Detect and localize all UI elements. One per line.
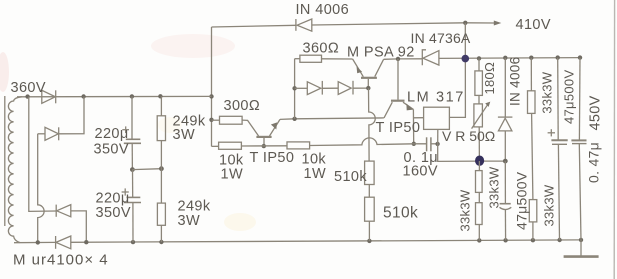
node rail end C6 junction <box>578 55 582 59</box>
wire LM317 input pin <box>413 117 423 119</box>
svg-text:IN 4736A: IN 4736A <box>411 30 471 46</box>
wire AC-top node down to D3 cathode <box>29 97 56 212</box>
transistor Q1 TIP50 <box>256 119 280 146</box>
node Q2 base / D6 cathode junction <box>366 86 370 90</box>
node R8 bottom junction <box>367 239 371 243</box>
ground symbol <box>564 240 599 257</box>
node D3/D4 anode junction <box>84 240 88 244</box>
node emitter riser junction <box>292 117 296 121</box>
node R10 bottom junction <box>477 238 481 242</box>
wire ground rail main segment <box>71 240 581 242</box>
node R1 top junction <box>158 94 162 98</box>
svg-text:33k3W: 33k3W <box>458 189 473 231</box>
resistor R10b 33k 3W <box>476 203 483 241</box>
resistor R9 180 ohm <box>475 58 483 104</box>
resistor R5 10k 1W <box>219 142 242 149</box>
wire LM317 output up to rail <box>449 23 465 118</box>
wire R6 to C3 with hop over divider <box>310 138 427 146</box>
resistor R8 510k (lower divider) <box>365 197 375 241</box>
node rail R11 junction <box>529 56 533 60</box>
wire Q1 emitter row to Q3 collector <box>280 118 384 120</box>
transformer T core line <box>4 96 6 226</box>
wire adj to divider tap <box>438 144 506 162</box>
svg-text:3W: 3W <box>173 127 196 143</box>
capacitor C2 220u 350V <box>124 170 141 243</box>
capacitor C6 0.47u 450V <box>571 58 586 240</box>
node 410V tap junction <box>463 21 467 25</box>
svg-text:IN 4006: IN 4006 <box>296 2 350 18</box>
capacitor C4 47u 500V (polarized) <box>500 161 512 240</box>
transistor Q2 MPSA92 <box>353 59 384 88</box>
resistor R2 249k 3W (lower bleeder) <box>157 203 165 242</box>
diode D2 Mur4100 (bridge) <box>38 127 59 140</box>
node adj divider junction (ink blob) <box>475 156 484 166</box>
node Q3 base tap junction <box>396 57 400 61</box>
capacitor C5 47u 500V <box>551 58 567 240</box>
node transformer top junction <box>25 94 29 98</box>
diode D6 protection <box>322 81 368 95</box>
wire Q3 emitter down to C3 node <box>412 109 414 143</box>
resistor R11 33k 3W (upper right bleeder) <box>528 58 536 200</box>
node C6 bottom / ground junction <box>579 238 583 242</box>
node rail R9 junction <box>477 56 481 60</box>
node Q1 base junction <box>262 144 266 148</box>
polarity + mark C1 <box>122 126 129 133</box>
svg-text:410V: 410V <box>516 17 551 33</box>
node resistor midpoint junction <box>159 166 164 171</box>
wire balance tie C-midpoint to R-midpoint <box>132 168 161 171</box>
wire D3 anode down to ground rail <box>71 211 87 242</box>
polarity + mark C2 <box>122 188 129 195</box>
svg-text:220μ: 220μ <box>95 126 129 142</box>
node rail C5 junction <box>556 55 560 59</box>
svg-text:M ur4100× 4: M ur4100× 4 <box>13 252 109 269</box>
node rail D9 junction <box>503 56 507 60</box>
polarity + mark C5 <box>548 129 555 136</box>
capacitor C3 0.1u 160V <box>427 137 438 151</box>
svg-text:180Ω: 180Ω <box>482 62 497 95</box>
svg-text:33k3W: 33k3W <box>540 71 555 113</box>
node LM317 adj junction <box>435 142 439 146</box>
arrow 410V output <box>494 21 502 26</box>
node C2 bottom junction <box>131 240 135 244</box>
svg-text:450V: 450V <box>588 95 604 130</box>
potentiometer VR 50 ohm <box>472 102 491 162</box>
svg-text:T IP50: T IP50 <box>250 150 295 166</box>
svg-text:1W: 1W <box>221 166 244 182</box>
wire vertical raw-supply riser x=211 <box>211 27 213 146</box>
wire base drive row <box>212 145 219 147</box>
node divider tap / C4 junction <box>503 159 508 164</box>
resistor R10a 33k 3W <box>476 161 483 203</box>
diode D5 protection <box>295 81 323 95</box>
svg-text:350V: 350V <box>94 142 129 158</box>
capacitor C1 220u 350V <box>124 96 141 169</box>
diode D1 Mur4100 (bridge, top) <box>42 90 56 103</box>
svg-text:IN 4006: IN 4006 <box>508 57 523 106</box>
svg-text:V R 50Ω: V R 50Ω <box>442 128 495 144</box>
resistor R7 510k (upper divider) <box>365 161 375 197</box>
node C1 top junction <box>130 94 134 98</box>
wire regulated +410V rail <box>439 57 580 60</box>
diode D3 Mur4100 (bridge, pointing left) <box>56 205 71 217</box>
wire raw +DC rail <box>17 95 212 97</box>
svg-text:350V: 350V <box>96 205 131 221</box>
svg-text:33k3W: 33k3W <box>542 184 557 226</box>
node D5 anode junction <box>292 86 296 90</box>
resistor R6 10k 1W <box>287 142 310 149</box>
svg-text:LM 317: LM 317 <box>407 90 465 106</box>
wire R5 to R6 <box>241 145 287 147</box>
svg-text:360Ω: 360Ω <box>303 41 340 57</box>
wire D2 anode to AC-bottom with hop <box>38 134 44 243</box>
node C3 left junction <box>412 142 416 146</box>
node C5 bottom junction <box>557 238 561 242</box>
diode D8 IN4736A zener (pointing left) <box>422 50 439 66</box>
svg-text:160V: 160V <box>403 164 438 180</box>
svg-text:300Ω: 300Ω <box>224 98 261 114</box>
resistor R1 249k 3W (upper bleeder) <box>157 96 165 203</box>
wire 410V top feed line <box>212 23 495 27</box>
regulator U1 LM317 body <box>424 107 450 129</box>
wire Q2 base down to 510k divider with hop <box>369 88 376 161</box>
resistor R4 360 ohm <box>295 55 353 62</box>
node D1/D2 cathode junction <box>81 94 85 98</box>
svg-text:T IP50: T IP50 <box>376 120 421 136</box>
svg-text:510k: 510k <box>383 205 418 222</box>
wire ground rail left segment <box>14 241 56 243</box>
node AC-bottom / D2 anode junction <box>36 240 40 244</box>
svg-text:1W: 1W <box>304 166 327 182</box>
wire D2 cathode up to +rail <box>59 97 84 134</box>
wire riser x=294.5 emitter to 360ohm <box>294 59 296 119</box>
svg-text:3W: 3W <box>178 213 201 229</box>
node R2 bottom junction <box>159 240 163 244</box>
resistor R12 33k 3W (lower right bleeder) <box>529 200 537 241</box>
transformer T secondary winding 360V <box>8 97 22 243</box>
diode D7 IN4006 (top, pointing left) <box>296 19 312 31</box>
node 300 ohm tap junction <box>209 118 213 122</box>
svg-text:510k: 510k <box>334 169 367 185</box>
svg-text:0. 47μ: 0. 47μ <box>586 142 602 183</box>
svg-text:M PSA 92: M PSA 92 <box>347 45 415 61</box>
node R12 bottom junction <box>531 238 535 242</box>
diode D9 IN4006 (vertical, pointing up) <box>498 58 513 161</box>
node C4 bottom junction <box>503 238 507 242</box>
node LM317 output / rail junction (ink blob) <box>462 55 470 63</box>
svg-text:47μ500V: 47μ500V <box>514 171 530 230</box>
resistor R3 300 ohm <box>212 116 259 136</box>
wire LM317 adj pin <box>437 130 439 144</box>
node raw rail / riser junction <box>209 94 213 98</box>
svg-text:47μ500V: 47μ500V <box>562 70 577 124</box>
node cap midpoint junction <box>130 167 135 172</box>
svg-text:360V: 360V <box>11 80 46 96</box>
diode D4 Mur4100 (bridge, in ground rail, pointing left) <box>56 236 71 249</box>
transistor Q3 TIP50 <box>384 59 413 118</box>
wire Q2 collector to Q3 base and zener <box>384 58 423 61</box>
svg-text:33k3W: 33k3W <box>487 166 502 208</box>
